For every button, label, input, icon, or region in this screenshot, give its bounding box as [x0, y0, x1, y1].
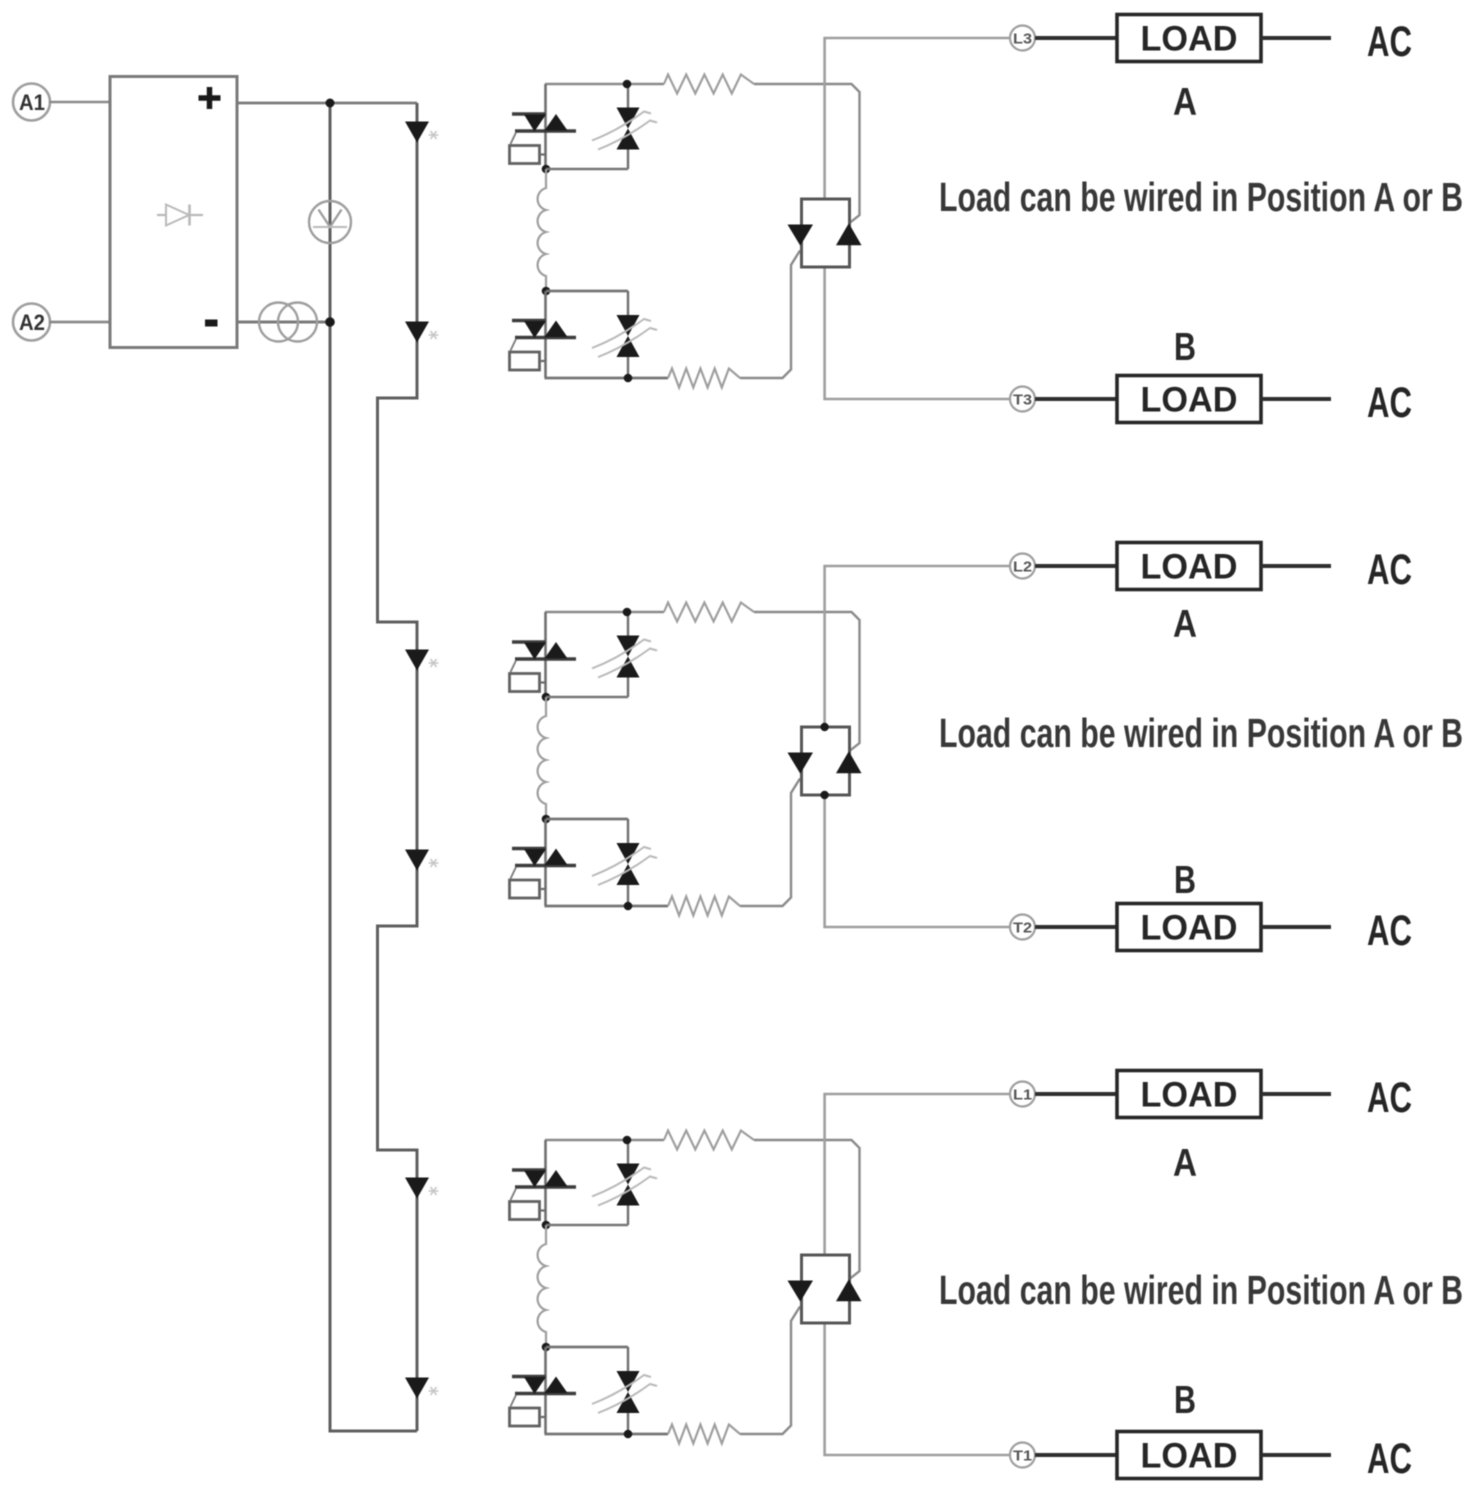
wire top rail ch3	[545, 1139, 664, 1142]
diac Zch3B	[617, 1371, 640, 1392]
triac Qch1 triangles	[788, 225, 814, 246]
node top rail ch1	[623, 80, 632, 89]
resistor Rch2A	[664, 603, 754, 622]
wire load B to AC ch1	[1261, 397, 1331, 401]
diac Zch1A light arrows	[592, 112, 651, 141]
wire load A to AC ch3	[1261, 1092, 1331, 1096]
node triac bottom ch2	[820, 791, 828, 799]
wire diac drop ch3A	[627, 1140, 629, 1164]
wire Rch3B to triac	[740, 1307, 800, 1435]
triac Qch3 body	[802, 1255, 850, 1323]
LED indicator	[309, 201, 351, 243]
minus polarity label	[205, 320, 218, 327]
svg-text:LOAD: LOAD	[1141, 909, 1238, 948]
node bottom rail ch3	[624, 1430, 633, 1439]
diode D3 asterisk	[429, 659, 439, 667]
svg-text:L1: L1	[1013, 1087, 1032, 1104]
phototriac Uch3A triangles	[524, 1171, 546, 1188]
diode D3	[405, 650, 429, 671]
svg-text:Load can be wired in Position: Load can be wired in Position A or B	[939, 1267, 1463, 1313]
diac Zch2A light arrows	[592, 640, 651, 669]
wire triac to L1 terminal	[825, 1094, 1010, 1255]
wire diac drop ch1B	[627, 291, 629, 315]
phototriac Uch1B gate stub	[540, 360, 547, 362]
wire diac drop ch2B	[627, 819, 629, 843]
svg-text:AC: AC	[1367, 1435, 1412, 1483]
wire A2 to input block	[49, 321, 110, 324]
phototriac Uch1A gate box	[510, 146, 540, 164]
node coil bottom ch2	[542, 815, 551, 824]
phototriac Uch1A gate stub	[540, 153, 547, 155]
phototriac Uch2B gate stub	[540, 888, 547, 890]
triac Qch2 triangles	[788, 753, 814, 774]
svg-text:B: B	[1174, 1379, 1196, 1422]
diac Zch1B	[617, 315, 640, 336]
wire Rch1B to triac	[740, 251, 800, 379]
load box B ch2	[1117, 904, 1261, 951]
svg-text:AC: AC	[1367, 379, 1412, 427]
wire bottom rail ch3	[545, 1433, 669, 1436]
diac Zch3B light arrows	[592, 1375, 651, 1404]
svg-text:AC: AC	[1367, 18, 1412, 66]
svg-text:Load can be wired in Position: Load can be wired in Position A or B	[939, 174, 1463, 220]
node at plus rail	[326, 99, 335, 108]
phototriac Uch3A gate box	[510, 1202, 540, 1220]
node triac top ch2	[820, 723, 828, 731]
svg-text:T1: T1	[1013, 1448, 1032, 1465]
wire triac to T3 terminal	[825, 267, 1010, 399]
phototriac Uch3B triangles	[524, 1377, 546, 1394]
svg-text:LOAD: LOAD	[1141, 1437, 1238, 1476]
diac Zch1B light arrows	[592, 319, 651, 348]
diode D6	[405, 1378, 429, 1399]
wire L2 to load A	[1035, 564, 1117, 568]
svg-text:B: B	[1174, 326, 1196, 369]
wire top rail ch1	[545, 83, 664, 86]
triac Qch3 triangles	[788, 1281, 814, 1302]
wire plus output rail	[237, 102, 417, 105]
svg-text:LOAD: LOAD	[1141, 548, 1238, 587]
phototriac Uch2A gate stub	[540, 681, 547, 683]
node coil bottom ch1	[542, 287, 551, 296]
wire A1 to input block	[49, 101, 110, 104]
node at minus rail	[325, 317, 335, 327]
wire minus output	[237, 321, 330, 324]
wire load B to AC ch3	[1261, 1453, 1331, 1457]
wire top rail ch1B	[546, 290, 628, 293]
diode D5	[405, 1178, 429, 1199]
wire diac drop ch3B	[627, 1347, 629, 1371]
phototriac Uch2B bars	[512, 847, 546, 850]
wire diac drop ch2A	[627, 612, 629, 636]
diode D5 asterisk	[429, 1187, 439, 1195]
load box B ch1	[1117, 376, 1261, 423]
diode D4	[405, 850, 429, 871]
terminal T1	[1010, 1443, 1035, 1468]
wire cell left vertical ch2B	[544, 819, 547, 906]
svg-text:LOAD: LOAD	[1141, 1076, 1238, 1115]
diac Zch1A	[617, 108, 640, 129]
terminal T3	[1010, 387, 1035, 412]
wire cell left vertical ch1	[544, 84, 547, 169]
inductor coil ch3	[538, 1225, 546, 1347]
svg-text:A2: A2	[19, 310, 45, 335]
phototriac Uch2A gate lead	[511, 661, 517, 673]
phototriac Uch1A gate lead	[511, 133, 517, 145]
wire L3 to load A	[1035, 36, 1117, 40]
input control block	[110, 77, 237, 348]
phototriac Uch1B gate lead	[511, 339, 517, 351]
resistor Rch3A	[664, 1131, 754, 1150]
node gate junction ch1A	[542, 165, 551, 174]
load box A ch3	[1117, 1071, 1261, 1118]
phototriac Uch2B gate lead	[511, 867, 517, 879]
inductor coil ch2	[538, 697, 546, 819]
resistor Rch1B	[668, 369, 740, 388]
wire mid ch2A	[546, 696, 628, 699]
terminal L3	[1010, 26, 1035, 51]
triac Qch2 body	[802, 727, 850, 795]
wire Rch3A to triac	[754, 1140, 860, 1279]
wire T2 to load B	[1035, 925, 1117, 929]
wire triac to T2 terminal	[825, 795, 1010, 927]
svg-text:L2: L2	[1013, 559, 1032, 576]
phototriac Uch3B gate lead	[511, 1395, 517, 1407]
wire T1 to load B	[1035, 1453, 1117, 1457]
wire Rch2A to triac	[754, 612, 860, 751]
wire mid ch1A	[546, 168, 628, 171]
current source symbol	[259, 303, 298, 342]
load box B ch3	[1117, 1432, 1261, 1479]
resistor Rch3B	[668, 1425, 740, 1444]
diode D1 asterisk	[429, 131, 439, 139]
wire top rail ch3B	[546, 1346, 628, 1349]
phototriac Uch1A triangles	[524, 115, 546, 132]
node coil bottom ch3	[542, 1343, 551, 1352]
phototriac Uch3B gate stub	[540, 1416, 547, 1418]
wire cell left vertical ch1B	[544, 291, 547, 378]
wire L1 to load A	[1035, 1092, 1117, 1096]
phototriac Uch1B gate box	[510, 352, 540, 370]
wire diac drop ch1A	[627, 84, 629, 108]
resistor Rch1A	[664, 75, 754, 94]
svg-text:AC: AC	[1367, 546, 1412, 594]
terminal L2	[1010, 554, 1035, 579]
phototriac Uch1A bars	[512, 112, 546, 115]
wire Rch2B to triac	[740, 779, 800, 907]
plus polarity label	[199, 87, 221, 109]
diode chain wire	[378, 103, 418, 1431]
diac Zch2B	[617, 843, 640, 864]
node top rail ch3	[623, 1136, 632, 1145]
wire triac to T1 terminal	[825, 1323, 1010, 1455]
wire cell left vertical ch3B	[544, 1347, 547, 1434]
node bottom rail ch1	[624, 374, 633, 383]
wire cell left vertical ch3	[544, 1140, 547, 1225]
phototriac Uch3A gate stub	[540, 1209, 547, 1211]
phototriac Uch2A triangles	[524, 643, 546, 660]
svg-text:A: A	[1173, 603, 1197, 646]
svg-text:Load can be wired in Position: Load can be wired in Position A or B	[939, 710, 1463, 756]
wire load B to AC ch2	[1261, 925, 1331, 929]
terminal T2	[1010, 915, 1035, 940]
wire triac to L2 terminal	[825, 566, 1010, 727]
terminal A1	[13, 84, 50, 121]
wire triac to L3 terminal	[825, 38, 1010, 199]
wire mid ch3A	[546, 1224, 628, 1227]
svg-text:LOAD: LOAD	[1141, 20, 1238, 59]
phototriac Uch2A gate box	[510, 674, 540, 692]
wire cell left vertical ch2	[544, 612, 547, 697]
terminal A2	[13, 304, 50, 341]
diac Zch3A	[617, 1164, 640, 1185]
node bottom rail ch2	[624, 902, 633, 911]
phototriac Uch2A bars	[512, 640, 546, 643]
svg-text:AC: AC	[1367, 1074, 1412, 1122]
load box A ch1	[1117, 15, 1261, 62]
wire bottom rail ch2	[545, 905, 669, 908]
phototriac Uch3A bars	[512, 1168, 546, 1171]
phototriac Uch1B triangles	[524, 321, 546, 338]
wire top rail ch2	[545, 611, 664, 614]
wire bottom rail ch1	[545, 377, 669, 380]
svg-text:T3: T3	[1013, 392, 1032, 409]
svg-text:B: B	[1174, 859, 1196, 902]
phototriac Uch3B bars	[512, 1375, 546, 1378]
svg-text:LOAD: LOAD	[1141, 381, 1238, 420]
internal protection diode	[157, 214, 203, 216]
wire top rail ch2B	[546, 818, 628, 821]
phototriac Uch3B gate box	[510, 1408, 540, 1426]
svg-text:AC: AC	[1367, 907, 1412, 955]
phototriac Uch1B bars	[512, 319, 546, 322]
diac Zch2A	[617, 636, 640, 657]
phototriac Uch3A gate lead	[511, 1189, 517, 1201]
diode D4 asterisk	[429, 859, 439, 867]
inductor coil ch1	[538, 169, 546, 291]
diode D1	[405, 122, 429, 143]
svg-text:A: A	[1173, 1142, 1197, 1185]
node top rail ch2	[623, 608, 632, 617]
resistor Rch2B	[668, 897, 740, 916]
load box A ch2	[1117, 543, 1261, 590]
node gate junction ch2A	[542, 693, 551, 702]
wire T3 to load B	[1035, 397, 1117, 401]
phototriac Uch2B triangles	[524, 849, 546, 866]
triac Qch1 body	[802, 199, 850, 267]
svg-text:A1: A1	[19, 90, 45, 115]
terminal L1	[1010, 1082, 1035, 1107]
diode D2	[405, 322, 429, 343]
diode D6 asterisk	[429, 1387, 439, 1395]
wire load A to AC ch1	[1261, 36, 1331, 40]
wire load A to AC ch2	[1261, 564, 1331, 568]
diac Zch2B light arrows	[592, 847, 651, 876]
node gate junction ch3A	[542, 1221, 551, 1230]
diode D2 asterisk	[429, 331, 439, 339]
svg-text:T2: T2	[1013, 920, 1032, 937]
left return bus	[330, 103, 417, 1431]
diac Zch3A light arrows	[592, 1168, 651, 1197]
wire Rch1A to triac	[754, 84, 860, 223]
phototriac Uch2B gate box	[510, 880, 540, 898]
svg-text:A: A	[1173, 81, 1197, 124]
svg-text:L3: L3	[1013, 31, 1032, 48]
